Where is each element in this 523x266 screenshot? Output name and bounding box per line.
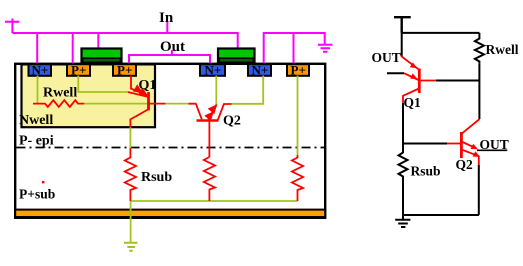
wire: Q2 emitter to rail	[478, 165, 480, 215]
svg-text:Nwell: Nwell	[19, 113, 53, 128]
wire: drop to left gate	[97, 33, 99, 50]
svg-text:N+: N+	[252, 63, 269, 78]
wire: P+ source to Q1 emitter (olive)	[78, 76, 128, 93]
wire: VSS net right	[264, 33, 325, 64]
stray red dot	[42, 181, 44, 183]
svg-text:Rwell: Rwell	[43, 86, 77, 101]
svg-text:N+: N+	[205, 63, 222, 78]
wire: VDD rail bar top-left	[5, 19, 19, 34]
resistor Rsub 1	[125, 148, 136, 201]
gate right (poly)	[218, 49, 255, 64]
diffusion P+ substrate tap	[287, 63, 309, 78]
wire: Q2 base black	[403, 143, 447, 145]
wire: In label stub	[166, 22, 168, 33]
VDD T-bar	[394, 17, 411, 33]
svg-text:N+: N+	[32, 63, 49, 78]
svg-text:OUT: OUT	[480, 137, 509, 152]
wire: N+ drain riser (olive)	[215, 76, 217, 106]
ground symbol (magenta, VSS)	[318, 45, 333, 52]
wire: substrate bus (olive)	[131, 200, 298, 202]
resistor Rsub 2	[204, 157, 215, 201]
diffusion N+ well tap	[29, 63, 52, 78]
ground symbol (olive)	[124, 243, 138, 251]
wire: P+ substrate tap riser (olive)	[297, 76, 299, 156]
svg-text:OUT: OUT	[372, 50, 401, 65]
n-well region	[22, 64, 156, 127]
wire: bottom rail	[403, 214, 479, 216]
svg-text:Rsub: Rsub	[141, 170, 172, 185]
wire: OUT stub left	[387, 72, 404, 74]
resistor Rwell	[33, 100, 84, 107]
wire: right branch	[478, 63, 480, 119]
P+ substrate contact strip	[15, 210, 325, 217]
wire: In net horizontal	[12, 33, 237, 49]
wire: left branch to rail	[402, 179, 404, 215]
svg-text:In: In	[159, 10, 174, 26]
ground symbol (schematic)	[395, 215, 410, 227]
svg-text:Out: Out	[160, 39, 185, 55]
diffusion P+ source PMOS	[67, 63, 90, 78]
wire: left branch to Rsub	[402, 103, 404, 153]
transistor Q2 (lateral NPN)	[189, 104, 232, 157]
diffusion P+ drain PMOS	[113, 63, 136, 78]
wire: top rail	[402, 32, 480, 34]
wire: drop to P+ source	[72, 33, 74, 65]
wire: N+ tap to Rwell (olive)	[37, 76, 39, 104]
transistor Q1 (vertical PNP)	[128, 76, 166, 128]
wire: Out net	[129, 50, 210, 64]
wire: Q2 emitter to N+ source (olive)	[232, 76, 264, 104]
diffusion N+ source NMOS	[248, 63, 271, 78]
wire: Q1 base to Rwell branch	[436, 80, 480, 82]
wire: drop to N+ well tap	[36, 33, 38, 65]
transistor Q1 (schematic PNP)	[401, 56, 436, 104]
transistor Q2 (schematic NPN)	[447, 119, 480, 165]
svg-text:P- epi: P- epi	[19, 134, 54, 149]
resistor Rwell (schematic)	[475, 33, 484, 63]
wire: ground drop (olive)	[130, 201, 132, 242]
wire: left drop to Q1	[401, 33, 403, 56]
svg-text:Rwell: Rwell	[486, 42, 519, 57]
svg-text:Q2: Q2	[456, 157, 474, 172]
svg-text:P+: P+	[117, 63, 132, 78]
resistor Rsub 3	[292, 155, 303, 201]
wire: Q1 base net (olive segments)	[84, 103, 188, 105]
diffusion N+ drain NMOS	[200, 63, 225, 78]
resistor Rsub (schematic)	[399, 153, 408, 180]
substrate box	[15, 64, 325, 218]
gate left (poly)	[82, 49, 122, 64]
svg-text:Q1: Q1	[404, 95, 422, 110]
wire: Q1 collector to Rsub (olive)	[129, 127, 131, 148]
svg-text:P+: P+	[71, 63, 86, 78]
svg-text:P+sub: P+sub	[19, 187, 55, 202]
wire: OUT underline right	[477, 149, 507, 151]
svg-text:P+: P+	[291, 63, 306, 78]
P- epi / P+ sub boundary (dash-dot line)	[17, 147, 325, 149]
svg-text:Rsub: Rsub	[411, 164, 441, 179]
svg-text:Q2: Q2	[223, 114, 241, 129]
svg-text:Q1: Q1	[139, 78, 157, 93]
